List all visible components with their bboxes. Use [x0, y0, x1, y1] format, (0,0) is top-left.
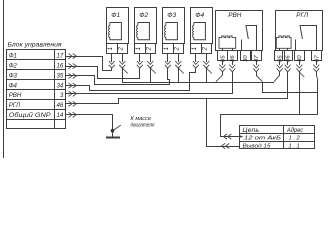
- connection table column divider: [283, 125, 285, 149]
- svg-text:Вывод 15: Вывод 15: [243, 143, 272, 149]
- svg-text:К массе: К массе: [131, 116, 152, 122]
- connector arrow into table row1: [224, 134, 232, 139]
- connector arrow at ECU pin 14: [65, 114, 81, 116]
- relay РГЛ pin chevron at x=299.3: [299, 60, 301, 65]
- relay РГЛ pin chevron at x=287.7: [287, 60, 289, 65]
- wire РВН contact 87 to battery node: [256, 76, 262, 82]
- wire injector U3 pin1 vertical: [167, 53, 169, 62]
- op block: ECU box: [7, 50, 66, 129]
- svg-text:Адрес: Адрес: [286, 128, 303, 134]
- injector U1 core bracket: [110, 23, 122, 40]
- wire net Общий pin14 to ground: [66, 115, 113, 131]
- connection table header underline: [239, 133, 315, 135]
- left drawing frame border: [3, 0, 5, 159]
- injector U3 pin squares: [163, 44, 184, 54]
- svg-text:86: 86: [230, 55, 236, 62]
- connector arrow into table row2: [222, 143, 230, 148]
- svg-text:двигателя: двигателя: [131, 123, 155, 129]
- relay РВН pin square 86: [228, 51, 238, 61]
- injector U4 coil: [193, 23, 194, 41]
- wire net РГЛ pin46 bus: [66, 99, 288, 104]
- injector U1 box: [107, 8, 129, 44]
- svg-text:1 . 2: 1 . 2: [289, 136, 301, 142]
- svg-text:85: 85: [220, 55, 226, 62]
- svg-text:87: 87: [254, 55, 260, 62]
- relay РВН contact fixed stub (pin 30): [241, 40, 243, 51]
- ECU row divider 3: [6, 79, 66, 81]
- wire injector U1 pin1 vertical: [111, 53, 113, 62]
- svg-text:3: 3: [60, 92, 64, 99]
- svg-text:12 от АкБ: 12 от АкБ: [244, 136, 281, 142]
- svg-text:2: 2: [203, 46, 209, 51]
- svg-text:РГЛ: РГЛ: [9, 102, 21, 109]
- connector arrow at ECU pin 3: [65, 93, 81, 95]
- wire net Ф4 pin34 to injector U4 pin1: [66, 68, 196, 91]
- relay РГЛ pin chevron at x=279.7: [279, 60, 281, 65]
- connector arrow at ECU pin 34: [65, 85, 81, 87]
- wire injector pin2 drop at x=178.3: [178, 53, 180, 62]
- injector U2 pin2 slash tick: [150, 68, 155, 73]
- РГЛ pin30 slash tick: [299, 72, 304, 77]
- relay РВН coil pin stubs: [222, 48, 224, 51]
- ground stem: [112, 130, 114, 137]
- injector U4 pin2 connector chevron: [203, 61, 209, 68]
- injector U1 pin squares: [107, 44, 128, 54]
- relay РГЛ box: [276, 11, 323, 51]
- relay РВН pin square 30: [241, 51, 251, 61]
- svg-text:Ф2: Ф2: [9, 63, 18, 70]
- wire net Ф3 pin35 to injector U3 pin1: [66, 68, 170, 85]
- connector arrow at ECU pin 17: [65, 56, 81, 58]
- relay РВН box: [216, 11, 263, 51]
- svg-text:17: 17: [57, 53, 64, 60]
- relay РГЛ pin square 87: [312, 51, 322, 61]
- relay РВН pin chevron at x=222.4: [222, 60, 224, 65]
- relay РВН coil: [219, 36, 236, 48]
- ECU row divider 1: [6, 59, 66, 61]
- svg-text:2: 2: [147, 46, 153, 51]
- injector U1 pin1 connector chevron: [109, 61, 115, 68]
- relay РГЛ coil pin stubs: [279, 48, 281, 51]
- injector U3 pin1 connector chevron: [165, 61, 171, 68]
- svg-text:1: 1: [192, 47, 198, 50]
- relay РГЛ contact blade: [300, 26, 302, 39]
- connection table row divider: [239, 141, 315, 143]
- svg-text:30: 30: [297, 55, 303, 62]
- wire battery rail to table row1: [221, 115, 318, 137]
- connector arrow at ECU pin 16: [65, 66, 81, 68]
- ECU row divider 4: [6, 89, 66, 91]
- ECU pin-number column divider: [54, 49, 56, 129]
- injector U4 pin1 connector chevron: [193, 61, 199, 68]
- svg-text:30: 30: [243, 55, 249, 62]
- svg-text:Ф4: Ф4: [195, 12, 204, 19]
- relay РВН pin square 87: [252, 51, 262, 61]
- svg-text:16: 16: [57, 63, 64, 70]
- svg-text:Ф3: Ф3: [9, 72, 18, 79]
- relay РВН contact output path (pin 87): [246, 26, 257, 51]
- wire injector pin2 drop at x=122.3: [122, 53, 124, 62]
- relay РВН pin chevron at x=256.2: [256, 60, 258, 65]
- connection table box: [240, 126, 315, 149]
- ECU row divider 2: [6, 69, 66, 71]
- injector U3 box: [163, 8, 185, 44]
- injector U1 pin2 slash tick: [122, 68, 127, 73]
- relay РГЛ pin square 85: [275, 51, 285, 61]
- wire РВН coil 86 drop: [232, 71, 234, 94]
- connector arrow at ECU pin 35: [65, 75, 81, 77]
- injector U1 coil: [109, 23, 110, 41]
- injector U3 coil: [165, 23, 166, 41]
- injector U3 pin2 slash tick: [178, 68, 183, 73]
- injector U3 core bracket: [166, 23, 178, 40]
- wire injector pin2 drop at x=206.3: [206, 53, 208, 62]
- injector U3 pin2 connector chevron: [175, 61, 181, 68]
- relay РГЛ pin square 30: [295, 51, 305, 61]
- svg-text:Общий GNP: Общий GNP: [9, 112, 52, 119]
- svg-text:Ф3: Ф3: [167, 12, 176, 19]
- ECU row divider 7: [6, 119, 66, 121]
- svg-text:1: 1: [136, 47, 142, 50]
- injector U2 core bracket: [138, 23, 150, 40]
- ground bolt tick: [113, 125, 121, 131]
- svg-text:Ф4: Ф4: [9, 82, 18, 89]
- relay РГЛ pin chevron at x=316.3: [316, 60, 318, 65]
- svg-text:Блок управления: Блок управления: [8, 42, 63, 49]
- svg-text:2: 2: [175, 46, 181, 51]
- svg-text:Цепь: Цепь: [243, 128, 260, 134]
- svg-text:1: 1: [164, 47, 170, 50]
- svg-text:1: 1: [108, 47, 114, 50]
- svg-text:РГЛ: РГЛ: [296, 12, 309, 19]
- ECU row divider 5: [6, 99, 66, 101]
- svg-text:РВН: РВН: [228, 12, 242, 19]
- wire net Ф1 pin17 to injector U1 pin1: [66, 57, 112, 71]
- wire net Ф2 pin16 to injector U2 pin1: [66, 67, 140, 79]
- svg-text:Ф1: Ф1: [111, 12, 120, 19]
- relay РВН contact blade: [246, 26, 248, 39]
- relay РГЛ contact output path (pin 87): [300, 26, 317, 51]
- connector arrow at ECU pin 46: [65, 103, 81, 105]
- svg-text:2: 2: [119, 46, 125, 51]
- ECU row divider 6: [6, 109, 66, 111]
- wire ignition feed to table row2: [207, 99, 240, 147]
- wire РГЛ pin30 drop to battery rail: [299, 71, 301, 115]
- injector U4 box: [191, 8, 213, 44]
- wire injector U2 pin1 vertical: [139, 53, 141, 62]
- injector U4 core bracket: [194, 23, 206, 40]
- relay РГЛ coil: [276, 36, 291, 48]
- wire1 arrowhead into cell: [240, 135, 243, 138]
- wire injector pin2 drop at x=150.3: [150, 53, 152, 62]
- relay РГЛ pin square 86: [283, 51, 293, 61]
- relay РВН pin chevron at x=232.3: [232, 60, 234, 65]
- wire РГЛ contact 87 to battery rail: [316, 76, 318, 80]
- svg-text:87: 87: [315, 55, 321, 62]
- wire injector U4 pin1 vertical: [195, 53, 197, 62]
- injector U2 box: [135, 8, 157, 44]
- injector U4 pin2 slash tick: [206, 68, 211, 73]
- wire РГЛ coil 86 drop: [287, 71, 289, 99]
- ground bar: [106, 137, 120, 139]
- injector U2 pin squares: [135, 44, 156, 54]
- injector U4 pin squares: [191, 44, 212, 54]
- svg-text:46: 46: [57, 102, 64, 109]
- ground bolt junction dot: [111, 129, 115, 133]
- wire injector supply bus: [122, 82, 274, 84]
- injector U2 pin2 connector chevron: [147, 61, 153, 68]
- svg-text:РВН: РВН: [9, 92, 22, 99]
- relay РГЛ contact fixed stub (pin 30): [295, 40, 297, 51]
- svg-text:35: 35: [57, 72, 64, 79]
- svg-text:86: 86: [286, 55, 292, 62]
- wire РГЛ coil 85 diagonal to supply bus: [279, 72, 281, 76]
- injector U1 pin2 connector chevron: [119, 61, 125, 68]
- injector U2 pin1 connector chevron: [137, 61, 143, 68]
- injector U2 coil: [137, 23, 138, 41]
- svg-text:Ф2: Ф2: [139, 12, 148, 19]
- relay РВН pin square 85: [218, 51, 228, 61]
- wire РВН coil 85 diagonal to supply bus: [222, 72, 224, 76]
- wire net РВН pin3 to РВН coil 86: [65, 93, 233, 95]
- svg-text:1 . 1: 1 . 1: [289, 143, 300, 149]
- svg-text:14: 14: [57, 112, 64, 119]
- svg-text:Ф1: Ф1: [9, 53, 17, 60]
- svg-text:34: 34: [57, 82, 64, 89]
